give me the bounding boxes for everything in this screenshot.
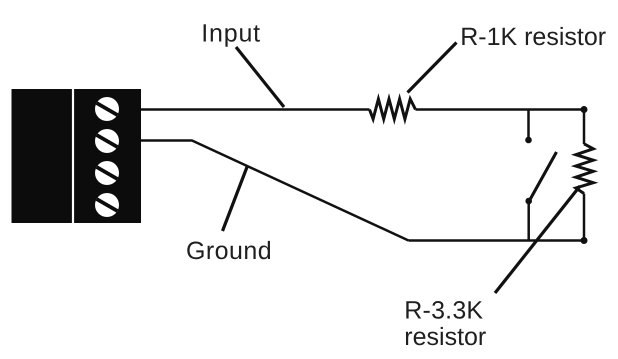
screw terminal 3 (95, 161, 119, 185)
svg-text:Ground: Ground (186, 237, 272, 265)
leader line for Input label (236, 47, 284, 107)
svg-text:Input: Input (201, 20, 261, 48)
wire: R2 to bottom-right node (583, 194, 586, 241)
resistor R2 (R-3.3K) vertical zigzag (576, 144, 594, 194)
screw terminal 1 (95, 97, 119, 121)
leader line for Ground label (223, 167, 248, 231)
leader line for R-3.3K label (495, 186, 580, 293)
wire: bottom rail (409, 239, 585, 242)
switch S1 lower stub (527, 201, 530, 241)
svg-text:resistor: resistor (404, 323, 486, 351)
switch S1 upper stub (527, 110, 530, 141)
wire: right branch top, node to R2 (583, 110, 586, 145)
wire: input, block to R1 (141, 108, 370, 111)
terminal block divider (72, 89, 74, 223)
terminal block J1 body (12, 89, 142, 223)
leader line for R-1K label (408, 43, 457, 93)
switch S1 lower contact dot (525, 198, 532, 205)
switch S1 arm (529, 152, 557, 201)
screw terminal 2 (95, 129, 119, 153)
wire: ground from block, bends down to bottom rail (141, 141, 409, 241)
resistor R1 (R-1K) zigzag (370, 99, 416, 119)
wire: R1 to top-right node (416, 108, 585, 111)
svg-text:R-3.3K: R-3.3K (404, 296, 483, 324)
node: bottom-right junction dot (581, 237, 588, 244)
switch S1 upper contact dot (525, 137, 532, 144)
svg-text:R-1K resistor: R-1K resistor (460, 23, 606, 51)
screw terminal 4 (95, 193, 119, 217)
node: top-right junction dot (581, 106, 588, 113)
